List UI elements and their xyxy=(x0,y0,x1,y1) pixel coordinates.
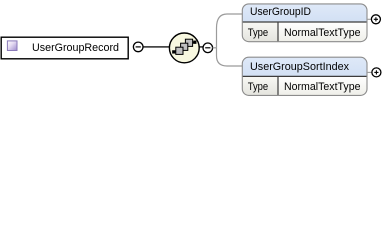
svg-text:UserGroupID: UserGroupID xyxy=(250,6,311,18)
branch wire to UserGroupSortIndex xyxy=(217,48,243,66)
svg-text:Type: Type xyxy=(248,81,269,93)
svg-text:NormalTextType: NormalTextType xyxy=(284,81,361,93)
svg-text:UserGroupRecord: UserGroupRecord xyxy=(32,42,119,54)
expand toggle circle (plus) UserGroupID xyxy=(371,15,380,24)
complexType icon (purple gradient square) xyxy=(7,41,17,51)
element box UserGroupSortIndex xyxy=(242,57,367,95)
expand wire stub UserGroupSortIndex xyxy=(367,71,373,73)
branch wire to UserGroupID xyxy=(217,14,243,48)
svg-text:UserGroupSortIndex: UserGroupSortIndex xyxy=(250,61,349,73)
sequence compositor circle xyxy=(169,33,199,63)
svg-text:Type: Type xyxy=(248,27,269,39)
element box UserGroupID xyxy=(242,4,367,42)
svg-text:NormalTextType: NormalTextType xyxy=(284,27,361,39)
wire from UserGroupRecord box to sequence compositor xyxy=(142,46,204,48)
expand toggle circle (plus) UserGroupSortIndex xyxy=(372,68,381,77)
collapse toggle circle (minus) left xyxy=(133,42,143,52)
element box UserGroupRecord xyxy=(1,37,128,59)
branch wire stub from minus circle to trunk xyxy=(213,47,217,49)
expand wire stub UserGroupID xyxy=(367,18,372,20)
collapse toggle circle (minus) right of compositor xyxy=(203,43,213,53)
